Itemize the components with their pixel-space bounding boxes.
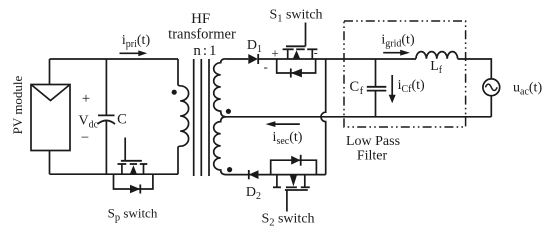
PV module	[31, 85, 70, 151]
wire PV bottom	[49, 151, 51, 175]
transistor S2 channel segments	[273, 186, 310, 188]
transistor S2 drain stroke	[276, 175, 278, 188]
svg-text:Low Pass: Low Pass	[346, 134, 400, 149]
diode body S1 loop	[277, 59, 316, 73]
svg-text:+: +	[271, 46, 278, 61]
capacitor Cf plates	[367, 87, 387, 91]
diode body Sp cathode bar	[139, 185, 141, 194]
wire top rail middle	[258, 58, 416, 60]
svg-text:S2 switch: S2 switch	[261, 212, 314, 229]
transistor S1 gate lead	[305, 23, 307, 47]
transistor S1 gate bar	[286, 45, 306, 47]
transistor S2 source stroke	[304, 175, 306, 188]
wire PV top	[49, 59, 51, 85]
svg-text:D1: D1	[247, 38, 262, 55]
wire link S1-S2 with hop	[321, 59, 326, 175]
source uac sine	[485, 84, 497, 90]
current ipri(t) arrow	[120, 50, 148, 56]
transformer core	[194, 59, 209, 176]
svg-text:+: +	[82, 91, 90, 107]
transformer secondary top winding	[214, 59, 226, 117]
inductor Lf	[416, 52, 458, 59]
svg-text:igrid(t): igrid(t)	[381, 33, 415, 50]
transformer secondary bottom winding	[214, 117, 226, 175]
svg-text:ipri(t): ipri(t)	[122, 33, 151, 50]
transformer secondary bottom dot	[227, 167, 232, 172]
transistor S2 gate bar	[285, 189, 308, 191]
transistor S1 body arrow	[293, 50, 300, 58]
transistor S2 gate lead	[286, 190, 288, 212]
wire center tap rail	[226, 116, 491, 118]
diode body S1 triangle	[291, 69, 302, 78]
low pass filter box	[344, 21, 466, 127]
transistor S1 drain stroke	[287, 49, 289, 59]
wire top rail right	[458, 59, 492, 79]
svg-text:n:1: n:1	[193, 43, 218, 59]
diode body Sp loop	[114, 174, 153, 189]
transistor Sp gate bar	[121, 160, 142, 162]
wire top rail left	[50, 58, 179, 60]
svg-text:iCf(t): iCf(t)	[398, 78, 425, 95]
svg-text:D2: D2	[246, 185, 261, 202]
svg-text:Sp switch: Sp switch	[108, 206, 158, 224]
svg-text:HF: HF	[191, 11, 210, 27]
transistor Sp source stroke	[143, 164, 145, 174]
diode body Sp triangle	[130, 185, 140, 194]
svg-text:S1 switch: S1 switch	[269, 8, 322, 25]
source uac circle	[483, 79, 500, 96]
current igrid(t) arrow	[383, 50, 410, 56]
svg-text:Vdc: Vdc	[79, 114, 99, 131]
wire secondary top to D1	[226, 58, 248, 60]
wire bottom rail left	[50, 173, 179, 175]
transistor S2 body arrow	[290, 175, 297, 186]
svg-text:Lf: Lf	[430, 59, 443, 76]
diode body S2 triangle	[291, 156, 300, 165]
transistor Sp drain stroke	[121, 164, 123, 174]
svg-text:Cf: Cf	[350, 79, 364, 97]
diode body S2 loop	[271, 160, 317, 174]
svg-text:isec(t): isec(t)	[273, 130, 303, 147]
diode D2 triangle	[249, 170, 259, 179]
capacitor Cf bottom lead	[375, 91, 377, 117]
wire bottom right riser	[490, 96, 492, 117]
capacitor C branch top wire	[105, 59, 107, 115]
current isec(t) arrow	[266, 121, 300, 127]
diode D1 triangle	[248, 54, 258, 64]
transistor S1 source stroke	[311, 49, 313, 59]
diode body S1 cathode bar	[290, 69, 292, 78]
svg-text:-: -	[264, 59, 268, 74]
diode body S2 cathode bar	[300, 155, 302, 166]
wire bottom branch	[226, 174, 326, 176]
svg-text:-: -	[314, 46, 318, 60]
transformer secondary top dot	[226, 109, 231, 114]
capacitor C bottom curved plate	[98, 120, 116, 124]
diode D1 cathode bar	[257, 54, 259, 64]
svg-text:uac(t): uac(t)	[513, 81, 542, 98]
transistor S1 channel segments	[283, 48, 318, 50]
transistor Sp body arrow	[130, 165, 137, 174]
svg-text:PV module: PV module	[10, 75, 25, 134]
svg-text:Filter: Filter	[357, 149, 388, 164]
capacitor C top plate	[98, 114, 115, 116]
transformer primary winding	[178, 59, 189, 174]
current iCf(t) arrow	[389, 75, 396, 103]
capacitor Cf top lead	[375, 59, 377, 87]
svg-text:C: C	[117, 112, 127, 128]
transistor Sp gate stub	[124, 138, 126, 161]
svg-text:transformer: transformer	[168, 26, 236, 42]
transistor Sp channel segments	[118, 163, 148, 165]
svg-text:−: −	[81, 130, 89, 146]
diode D2 cathode bar	[248, 170, 250, 179]
transformer primary polarity dot	[172, 90, 177, 95]
capacitor C bottom wire	[105, 121, 107, 175]
